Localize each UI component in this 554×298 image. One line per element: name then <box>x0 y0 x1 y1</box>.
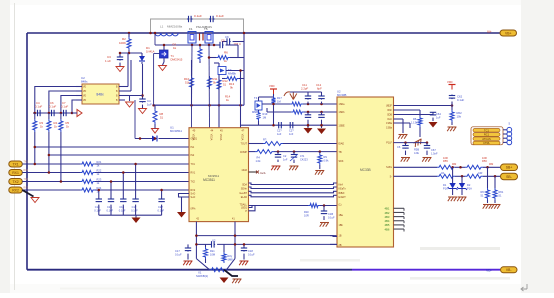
svg-text:MC3511: MC3511 <box>203 178 215 182</box>
capacitor C13 <box>305 111 311 127</box>
svg-text:R1F: R1F <box>304 210 309 214</box>
IC U3 left pin 3 <box>76 96 87 98</box>
resistor R60 51 <box>481 167 490 203</box>
wire gray filter box <box>151 19 244 33</box>
IC U3 left pin 2 <box>76 91 87 93</box>
svg-text:MC33511: MC33511 <box>170 129 182 133</box>
svg-text:TX2: TX2 <box>191 181 196 184</box>
svg-text:D1: D1 <box>443 183 447 187</box>
IC U2 right pin names <box>386 105 393 179</box>
capacitor C17 0.1uF <box>131 163 139 215</box>
label U1 <box>170 126 182 134</box>
svg-text:MMBb: MMBb <box>228 72 237 76</box>
svg-text:L1: L1 <box>160 25 164 29</box>
capacitor C66 <box>397 143 409 155</box>
svg-text:1.13k: 1.13k <box>411 121 418 125</box>
label C4 <box>147 99 152 107</box>
svg-text:S32KB(1): S32KB(1) <box>196 274 208 278</box>
wire TDALL <box>249 204 338 208</box>
svg-text:16A6: 16A6 <box>241 169 247 172</box>
svg-text:IN2: IN2 <box>191 154 195 157</box>
svg-text:D2: D2 <box>467 183 471 187</box>
svg-text:RX2: RX2 <box>12 188 19 192</box>
svg-text:SDAn: SDAn <box>241 188 248 191</box>
svg-text:VDD: VDD <box>447 80 453 84</box>
svg-text:1uF: 1uF <box>436 116 441 120</box>
connector J5 pin 2 oval <box>473 133 500 137</box>
resistor R56 <box>465 156 487 170</box>
svg-text:T1: T1 <box>171 54 175 58</box>
ground below C18 <box>239 261 248 265</box>
resistor R12 51 <box>217 78 228 91</box>
svg-text:848x: 848x <box>96 93 104 97</box>
svg-text:OsC: OsC <box>387 118 392 121</box>
svg-text:SB-: SB- <box>506 175 512 179</box>
svg-text:R61: R61 <box>499 190 504 194</box>
wire to IC1 pin3 <box>48 154 189 157</box>
svg-text:TX1: TX1 <box>24 162 29 164</box>
svg-text:2B: 2B <box>339 244 342 247</box>
zener D2B <box>457 176 472 195</box>
svg-text:C17: C17 <box>175 249 180 253</box>
svg-text:0.1uF: 0.1uF <box>61 105 68 109</box>
wire J4 ground stub <box>22 190 33 197</box>
wire main top bus <box>27 32 500 34</box>
capacitor C67 1.5nF <box>424 143 438 156</box>
wire U2 lower-left pin jog2 <box>330 243 337 245</box>
svg-text:6pF: 6pF <box>317 87 322 91</box>
wire cluster x240 down <box>239 69 242 127</box>
wire RbF branch <box>394 110 421 116</box>
svg-text:1SBa: 1SBa <box>386 122 393 125</box>
connector J7 OUT- <box>501 173 518 180</box>
svg-text:IN1: IN1 <box>191 146 195 149</box>
resistor R27 <box>222 244 233 263</box>
svg-text:0.1uF: 0.1uF <box>158 209 165 213</box>
IC U1 top pin numbers <box>191 130 245 141</box>
junction dots caps row <box>34 112 74 115</box>
capacitor C20 1nF <box>275 150 288 162</box>
connector J4 (left oval) <box>9 187 29 193</box>
ground xtal rake <box>232 279 241 283</box>
svg-text:VD: VD <box>83 91 87 93</box>
svg-text:P1A: P1A <box>467 187 472 191</box>
svg-text:Vi+: Vi+ <box>487 30 492 34</box>
IC U2 body <box>337 97 394 247</box>
svg-text:R?: R? <box>263 138 267 142</box>
wire bus3 <box>249 191 338 193</box>
wire bus1 SDA <box>249 183 338 185</box>
pilcrow return mark <box>521 284 527 291</box>
svg-text:0.1uF: 0.1uF <box>175 253 182 257</box>
svg-text:0.1uF: 0.1uF <box>328 216 335 220</box>
svg-text:CTRL: CTRL <box>483 141 490 145</box>
ground caps row2 <box>132 215 141 223</box>
connector J5 pin 3 oval <box>473 137 500 141</box>
svg-text:TX2: TX2 <box>24 179 29 181</box>
svg-text:R4: R4 <box>257 156 261 160</box>
svg-text:C2: C2 <box>283 154 287 158</box>
wire cluster x219 to IC1 <box>214 63 219 128</box>
IC U1 right pin names <box>239 143 247 213</box>
wire F1 down to IC1 pin <box>191 45 194 105</box>
svg-text:BtBrF: BtBrF <box>339 192 346 195</box>
connector J6 OUT+ <box>501 164 518 171</box>
svg-text:10R: 10R <box>478 172 483 175</box>
capacitor C4 <box>139 98 145 108</box>
resistor R24 <box>80 186 102 194</box>
resistor R1 1k <box>173 43 203 64</box>
ground below C20 <box>271 166 280 170</box>
junction out lines <box>451 166 496 178</box>
svg-text:0.1uF: 0.1uF <box>216 14 224 18</box>
wire caps row <box>33 112 76 114</box>
svg-text:1SBa: 1SBa <box>386 127 393 130</box>
svg-text:MC33B: MC33B <box>360 168 371 172</box>
ground below C67 <box>422 158 431 162</box>
svg-text:2.2pF: 2.2pF <box>301 87 308 91</box>
IC U3 right pin 6 <box>116 91 125 93</box>
resistor R33 <box>318 150 329 169</box>
wire bus4 <box>249 195 338 197</box>
svg-text:1SDb: 1SDb <box>339 111 346 114</box>
inductor L1 MMZ1608 <box>155 25 183 36</box>
ferrite bead T5 <box>196 25 213 45</box>
wire U3 pin4 left-down <box>72 100 76 113</box>
svg-text:GeuBT: GeuBT <box>239 192 247 195</box>
svg-text:1.5nF: 1.5nF <box>431 151 438 155</box>
capacitor C15 series <box>277 122 282 136</box>
connector J5 pin circles <box>503 122 512 145</box>
svg-text:1N41A: 1N41A <box>146 49 155 53</box>
label out1 top <box>452 163 494 166</box>
wire LBD1 jog <box>249 206 256 211</box>
svg-text:848x: 848x <box>81 80 88 84</box>
ground below R33 <box>315 171 324 175</box>
ground below C17 <box>183 261 192 265</box>
svg-text:RX1: RX1 <box>24 170 29 172</box>
IC U3 left pin 1 <box>76 87 87 89</box>
ground OsC <box>398 135 407 139</box>
wire cluster left vert <box>154 32 157 45</box>
capacitor C1 0.1uF (top) <box>187 14 202 22</box>
ground below R61 <box>491 205 500 209</box>
wire line2 <box>22 171 189 174</box>
svg-text:1SBE: 1SBE <box>339 124 346 127</box>
ground below R62 <box>447 127 456 131</box>
svg-text:1B: 1B <box>339 234 342 237</box>
input arrow right <box>72 110 82 117</box>
ground below C64 <box>429 122 438 128</box>
svg-text:VD: VD <box>83 87 87 89</box>
resistor R15 51 <box>153 105 164 124</box>
ground below CT1 <box>289 166 298 170</box>
capacitor C15 0.1uF <box>107 180 115 215</box>
ground below C13 <box>304 124 313 134</box>
wire caps row2 bottom bus <box>99 214 162 216</box>
resistor R3 1k <box>33 113 44 164</box>
svg-text:C2?: C2? <box>158 205 163 209</box>
capacitor C11 0.1uF <box>49 101 56 116</box>
IC U3 848x body <box>81 76 119 104</box>
capacitor C5 <box>213 39 238 58</box>
ferrite bead F1 <box>188 27 196 45</box>
IC U1 left pin names <box>191 138 198 211</box>
wire cluster lower bus <box>152 104 244 107</box>
svg-text:R2x: R2x <box>210 249 215 253</box>
svg-text:C64: C64 <box>436 112 441 116</box>
svg-text:1Ba: 1Ba <box>339 214 344 217</box>
junction top bus x244 <box>243 32 246 35</box>
capacitor C14 0.1uF <box>94 189 102 215</box>
svg-text:10M: 10M <box>210 253 215 257</box>
wire osc top link <box>284 92 322 96</box>
wire T1 source down <box>154 54 160 106</box>
svg-text:RX2: RX2 <box>24 188 29 190</box>
ground below D1B <box>448 197 457 201</box>
svg-text:51k: 51k <box>185 81 190 85</box>
wire TOUT <box>249 142 338 146</box>
capacitor C64 1uF <box>394 112 442 121</box>
capacitor C18b 0.1uF <box>158 189 165 215</box>
svg-text:PS/LAMB04S: PS/LAMB04S <box>196 25 212 29</box>
ground R63 slanted <box>413 127 423 147</box>
svg-text:R5B: R5B <box>414 148 419 152</box>
resistor R4 1k <box>47 113 58 173</box>
svg-text:0.1uF: 0.1uF <box>457 98 464 102</box>
svg-text:R22: R22 <box>97 169 102 173</box>
svg-text:4B6: 4B6 <box>385 227 390 231</box>
svg-text:C9: C9 <box>225 35 229 39</box>
svg-text:10R: 10R <box>304 214 309 218</box>
svg-text:C4223: C4223 <box>300 158 308 162</box>
wire osc line3 <box>241 124 338 127</box>
svg-text:MMZ1608a: MMZ1608a <box>167 25 183 29</box>
svg-text:C6: C6 <box>397 145 401 149</box>
IC U1 label <box>208 174 219 178</box>
ground below D2B <box>457 197 466 201</box>
svg-text:SDK: SDK <box>339 160 344 163</box>
xtal ground hook <box>224 270 238 276</box>
resistor R58 <box>465 172 483 178</box>
resistor R32 1.0k <box>256 156 262 164</box>
ground below C1B <box>320 223 329 227</box>
zener D1B <box>443 167 457 195</box>
IC U1 bottom pin numbers <box>196 218 235 221</box>
capacitor C10 0.1uF <box>35 101 42 116</box>
wire U3 pin7 to C4 <box>125 95 143 97</box>
resistor R63 <box>411 116 422 127</box>
wire top cluster right edge <box>243 33 245 105</box>
svg-text:TX1: TX1 <box>191 163 196 166</box>
wire R2 to C3/D1 <box>120 52 142 55</box>
svg-text:VDDA: VDDA <box>209 134 212 141</box>
svg-text:TX2: TX2 <box>12 180 18 184</box>
capacitor C2 0.1uF (top) <box>209 14 224 22</box>
svg-text:TOUT: TOUT <box>241 143 248 146</box>
capacitor C16 series <box>289 122 294 136</box>
svg-text:0F%: 0F% <box>191 208 197 211</box>
svg-text:R21: R21 <box>97 160 102 164</box>
svg-text:51: 51 <box>223 83 227 87</box>
connector J2 (left oval) <box>9 170 29 176</box>
svg-text:DMG3415: DMG3415 <box>171 58 183 62</box>
resistor R57 <box>437 172 455 178</box>
ground below T1 <box>159 62 167 71</box>
ground below C4 <box>139 109 147 114</box>
connector J1 (left oval) <box>9 161 29 167</box>
resistor R10 51k <box>184 60 194 105</box>
wire SA/G stub <box>249 171 267 176</box>
svg-text:10k: 10k <box>457 115 462 119</box>
resistor R6 1k <box>210 51 244 64</box>
svg-text:P1LF: P1LF <box>386 142 392 145</box>
svg-text:VD: VD <box>83 96 87 98</box>
resistor R26 10M <box>204 244 216 263</box>
wire bus2 SCL <box>249 187 338 189</box>
capacitor C18 xtal <box>241 243 255 259</box>
svg-text:1M: 1M <box>277 100 281 104</box>
capacitor C16 0.1uF <box>119 171 127 215</box>
ground xtal fill <box>220 278 229 284</box>
svg-text:0.1uF: 0.1uF <box>194 14 202 18</box>
resistor R2 100K <box>119 32 131 53</box>
IC U3 left pin 4 <box>76 100 87 102</box>
capacitor C9 103 <box>222 35 244 46</box>
svg-text:R6: R6 <box>481 190 485 194</box>
IC U2 left pin names <box>339 103 347 247</box>
svg-text:TC1: TC1 <box>484 128 489 132</box>
svg-text:0.1uF: 0.1uF <box>35 105 42 109</box>
resistor R61 51 <box>493 176 504 203</box>
ground below C14 <box>317 124 326 134</box>
svg-text:VD: VD <box>83 100 87 102</box>
resistor R11 56k <box>208 76 218 89</box>
svg-text:R19: R19 <box>263 112 268 116</box>
svg-text:VB-: VB- <box>486 269 492 273</box>
svg-text:1uF: 1uF <box>277 133 282 136</box>
connector P1 Vin+ (top right) <box>487 30 517 36</box>
svg-text:SB+: SB+ <box>506 166 513 170</box>
wire xtal top <box>195 234 337 237</box>
IC U2 label <box>337 90 371 173</box>
svg-text:1Bb: 1Bb <box>339 224 344 227</box>
IC U3 right pin 5 <box>116 87 125 89</box>
IC U1 SD loopback <box>179 194 190 198</box>
svg-text:R6: R6 <box>224 51 228 55</box>
capacitor C3 1uF <box>105 53 123 63</box>
wire line1 <box>22 163 189 166</box>
svg-text:R9: R9 <box>324 155 328 159</box>
svg-text:1nF: 1nF <box>289 133 294 136</box>
svg-text:KlrA: KlrA <box>339 184 344 187</box>
crystal T4 <box>252 96 262 114</box>
svg-text:0.1uF: 0.1uF <box>94 209 101 213</box>
svg-text:VDD: VDD <box>269 84 275 88</box>
power VDD C62 <box>447 80 456 90</box>
wire U3 pin1 left-down <box>35 87 76 114</box>
wire TCA1 jog <box>249 206 253 208</box>
wire line3 <box>22 180 189 183</box>
capacitor C62 0.1uF <box>449 95 465 106</box>
resistor R21 <box>80 160 102 168</box>
svg-text:1M8: 1M8 <box>228 258 234 262</box>
wire line4 <box>22 189 189 191</box>
connector J5 pin 1 oval <box>473 128 500 132</box>
svg-text:X2: X2 <box>212 239 216 243</box>
diode D1 1N4148 <box>139 46 155 64</box>
svg-text:RX1: RX1 <box>12 171 19 175</box>
ground IC U1 S+D pins <box>177 197 186 218</box>
capacitor C1B <box>321 204 335 220</box>
wire 1SBa stub <box>394 123 411 128</box>
resistor R17 1M <box>272 94 283 105</box>
svg-text:0.1uF: 0.1uF <box>119 209 126 213</box>
svg-text:1uF: 1uF <box>147 103 152 107</box>
wire osc line2 <box>267 108 337 114</box>
svg-text:0.1uF: 0.1uF <box>49 105 56 109</box>
wire D1 down to C4 <box>141 64 144 98</box>
wire IC U1 pin41 down <box>227 222 236 270</box>
faint artifacts bottom <box>60 247 510 290</box>
ground below C3 <box>116 63 124 72</box>
wire U3 pin8b down <box>134 100 136 139</box>
ferrite claw FB2 <box>290 93 297 100</box>
wire bead junction bus <box>155 34 214 47</box>
trimmer cap CT1 <box>290 150 308 163</box>
wire osc line1 <box>262 102 337 106</box>
crystal X1 on bus <box>210 268 227 272</box>
svg-text:1 uF: 1 uF <box>105 59 111 63</box>
svg-text:1nF: 1nF <box>283 158 288 162</box>
transistor T6 <box>218 67 244 76</box>
svg-text:UB2F: UB2F <box>386 105 393 108</box>
capacitor C11 2.2pF <box>301 83 311 104</box>
svg-text:RC1: RC1 <box>484 133 490 137</box>
transistor T1 DMG3415 <box>160 45 183 62</box>
label X1 32kHz <box>196 271 208 279</box>
svg-text:TB: TB <box>339 151 342 154</box>
svg-text:R2y: R2y <box>228 254 233 258</box>
svg-text:1M: 1M <box>263 116 267 120</box>
svg-text:MC9511: MC9511 <box>208 174 219 178</box>
svg-text:R6: R6 <box>413 117 417 121</box>
svg-text:P1A: P1A <box>443 187 448 191</box>
capacitor C17 xtal <box>175 244 191 259</box>
wire U3 pin2 left-down <box>49 91 76 113</box>
svg-text:ELAD: ELAD <box>241 196 248 199</box>
resistor R31 label <box>263 138 267 142</box>
IC U1 body <box>189 128 249 222</box>
svg-text:RbF: RbF <box>387 109 392 112</box>
ground below C66 <box>401 158 410 162</box>
wire T5 down to IC1 pin <box>208 45 211 128</box>
svg-text:4.9k: 4.9k <box>414 151 420 155</box>
svg-text:VB-: VB- <box>506 268 512 272</box>
wire main bottom bus (navy part) <box>27 269 352 271</box>
crystal X2 cap <box>195 239 337 248</box>
wire main bottom bus (violet part) <box>352 269 500 271</box>
IC U2 bottom right comb pins <box>385 207 405 232</box>
wire to IC1 pin2 <box>34 146 189 149</box>
connector J3 (left oval) <box>9 179 29 185</box>
ground below R60 <box>483 205 492 209</box>
svg-text:4B2: 4B2 <box>452 163 457 166</box>
connector J5 outline <box>471 127 503 145</box>
svg-text:VDDA: VDDA <box>219 134 222 141</box>
svg-text:RX1: RX1 <box>191 172 196 175</box>
diode D2 on pin1 wire <box>135 136 189 142</box>
